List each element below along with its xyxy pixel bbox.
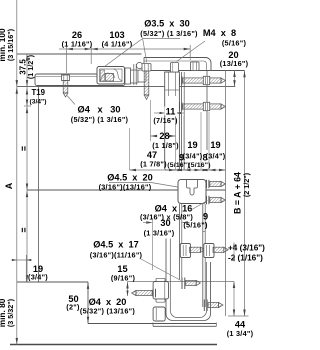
svg-text:(3/4"): (3/4") — [28, 273, 48, 282]
top wall screw 1 — [179, 76, 181, 84]
dim 26 ext lines — [65, 45, 67, 73]
dim 26-103 line — [59, 48, 190, 50]
dim 19 bottom — [25, 255, 27, 282]
bracket screw section — [101, 70, 105, 81]
mid bracket slot — [187, 180, 198, 196]
adjuster tab — [171, 63, 179, 73]
mid bracket plate — [178, 180, 206, 204]
top reference line — [150, 70, 245, 72]
svg-text:(9/16"): (9/16") — [111, 274, 136, 283]
svg-text:(3/4"): (3/4") — [183, 152, 203, 161]
step bottom line — [88, 323, 216, 325]
svg-text:(2 1/2"): (2 1/2") — [242, 172, 251, 197]
svg-text:Ø4 x 20: Ø4 x 20 — [89, 297, 127, 307]
ceiling line — [17, 53, 142, 55]
svg-text:(1 1/8"): (1 1/8") — [152, 141, 179, 150]
svg-text:(5/32") (1 3/16"): (5/32") (1 3/16") — [71, 115, 129, 124]
svg-text:M4 x 8: M4 x 8 — [203, 28, 236, 38]
lower span arrow up — [16, 87, 18, 94]
carrier bracket body — [97, 67, 125, 85]
svg-text:(1 1/16"): (1 1/16") — [62, 40, 93, 49]
dim 50 arrows — [87, 282, 89, 289]
M4 grub screw — [191, 62, 200, 71]
floor arrow — [16, 338, 18, 345]
right long vertical x225.5 — [225, 71, 227, 317]
guide channel outer U — [166, 239, 211, 321]
dim 37.5 arrows — [26, 54, 28, 61]
clip block 1 — [180, 244, 190, 258]
dim 26 arrows — [85, 48, 92, 50]
svg-text:(7/16"): (7/16") — [153, 116, 178, 125]
screw Ø4x30 shaft — [63, 81, 68, 94]
step vertical — [87, 282, 89, 324]
carrier bracket inner — [100, 69, 123, 82]
clip screw 1 — [190, 247, 201, 252]
svg-text:44: 44 — [235, 320, 246, 330]
svg-text:(3/16")(11/16"): (3/16")(11/16") — [90, 251, 143, 260]
bottom screw 2 — [204, 300, 223, 312]
right wall inner face x207 — [206, 71, 208, 151]
suspension plate inner lines — [167, 72, 169, 96]
svg-text:(3 5/32"): (3 5/32") — [6, 298, 15, 327]
svg-text:(5/16"): (5/16") — [188, 162, 210, 169]
floor line — [10, 344, 217, 346]
dim row ext lines — [129, 128, 131, 170]
svg-text:47: 47 — [147, 150, 157, 160]
svg-text:28: 28 — [159, 131, 169, 141]
svg-text:(3 15/16"): (3 15/16") — [6, 28, 15, 61]
suspension plate — [165, 72, 180, 170]
svg-text:(1 7/8"): (1 7/8") — [140, 160, 167, 169]
svg-text:(5/16"): (5/16") — [167, 162, 189, 169]
svg-text:(4 1/16"): (4 1/16") — [102, 40, 133, 49]
svg-text:T19: T19 — [32, 88, 46, 97]
svg-text:(5/32") (1 3/16"): (5/32") (1 3/16") — [140, 29, 198, 38]
dim A arrows — [26, 107, 28, 114]
leader M4x8 — [177, 41, 206, 62]
top track profile — [144, 58, 211, 71]
bottom shelf line left — [17, 281, 88, 283]
B dim line x244.5 — [244, 71, 246, 317]
dim 28 — [151, 135, 158, 137]
svg-text:26: 26 — [72, 30, 82, 40]
guide base bar — [153, 325, 216, 327]
svg-text:Ø4 x 30: Ø4 x 30 — [78, 105, 121, 115]
equal mark 1 — [21, 146, 23, 150]
svg-text:A: A — [4, 182, 14, 189]
guide channel inner U — [170, 239, 206, 318]
svg-text:(3/4"): (3/4") — [206, 152, 226, 161]
svg-text:(1 3/16"): (1 3/16") — [144, 229, 175, 238]
screw Ø3.5x30 shaft — [144, 71, 149, 95]
screw Ø4.5x17 — [132, 290, 137, 295]
top wall screw 2 — [179, 102, 181, 110]
middle shelf line left — [27, 189, 178, 191]
svg-text:(13/16"): (13/16") — [220, 59, 249, 68]
screw Ø4x30 head — [62, 75, 70, 81]
dim T19 arrows — [26, 88, 28, 95]
left wall dim line x16.8 — [16, 0, 18, 345]
svg-text:19: 19 — [210, 140, 220, 150]
dim 11 — [160, 112, 166, 114]
upper door profile edges — [181, 72, 183, 170]
svg-text:(5/16"): (5/16") — [222, 39, 247, 48]
channel screw Ø4x20 — [182, 278, 200, 290]
dim B arrows — [243, 71, 245, 78]
mid wall screw 2 — [206, 196, 208, 204]
svg-text:(1 3/4"): (1 3/4") — [227, 329, 254, 338]
svg-text:103: 103 — [109, 30, 124, 40]
svg-text:Ø3.5 x 30: Ø3.5 x 30 — [144, 19, 189, 29]
svg-text:B = A + 64: B = A + 64 — [233, 172, 243, 214]
clip screw 2 — [213, 247, 224, 252]
middle shelf line right — [206, 189, 226, 191]
svg-text:11: 11 — [166, 107, 176, 117]
dim 44 — [233, 282, 235, 317]
top panel underside line — [17, 86, 236, 88]
leader Ø4.5x17 — [140, 259, 181, 281]
upper door left edge — [38, 87, 40, 282]
leader Ø4x30 — [67, 96, 75, 105]
lower door left pair — [178, 204, 180, 280]
clip block 2 — [204, 244, 214, 258]
roller parts — [125, 68, 131, 84]
min100 arrow — [16, 80, 18, 87]
equal mark 2 — [21, 228, 23, 232]
dim row line — [130, 169, 226, 171]
dim row arrows — [130, 169, 137, 171]
dim 15 arrows — [127, 282, 129, 297]
svg-text:Ø4.5 x 17: Ø4.5 x 17 — [93, 240, 138, 250]
svg-text:15: 15 — [117, 264, 127, 274]
mid wall screw 1 — [206, 180, 208, 188]
leader Ø3.5x30 — [143, 38, 180, 40]
left dim line x27 — [26, 54, 28, 282]
svg-text:30: 30 — [160, 218, 170, 228]
dim 30 arrows — [146, 221, 153, 223]
svg-text:(3/4"): (3/4") — [30, 99, 47, 106]
screw Ø3.5x30 head — [142, 64, 151, 72]
bottom shelf line right — [128, 281, 235, 283]
svg-text:19: 19 — [187, 140, 197, 150]
leader Ø4.5x20 — [109, 182, 151, 184]
svg-text:(5/32") (13/16"): (5/32") (13/16") — [80, 307, 135, 316]
dim 20 arrows — [234, 71, 236, 87]
guide plate A — [153, 282, 168, 300]
svg-text:Ø4.5 x 20: Ø4.5 x 20 — [107, 173, 152, 183]
svg-text:(2"): (2") — [66, 303, 80, 312]
guide plate B — [153, 307, 165, 321]
label 11 — [165, 107, 178, 116]
top rail profile — [35, 74, 125, 86]
tolerance arrows — [233, 243, 235, 248]
lower door right pair — [202, 204, 204, 307]
svg-text:(3/16")(13/16"): (3/16")(13/16") — [99, 183, 152, 192]
leader Ø4x16 — [191, 201, 208, 211]
